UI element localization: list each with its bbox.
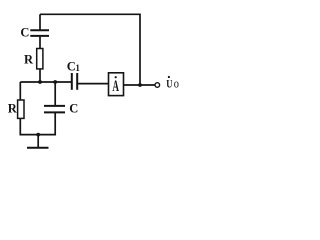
svg-text:R: R [8, 102, 18, 116]
svg-text:C: C [69, 102, 78, 116]
svg-text:1: 1 [75, 63, 80, 73]
svg-text:C: C [20, 26, 29, 40]
svg-text:A: A [112, 78, 119, 95]
svg-text:R: R [24, 53, 34, 67]
svg-text:U: U [166, 77, 172, 91]
svg-text:o: o [174, 77, 179, 91]
